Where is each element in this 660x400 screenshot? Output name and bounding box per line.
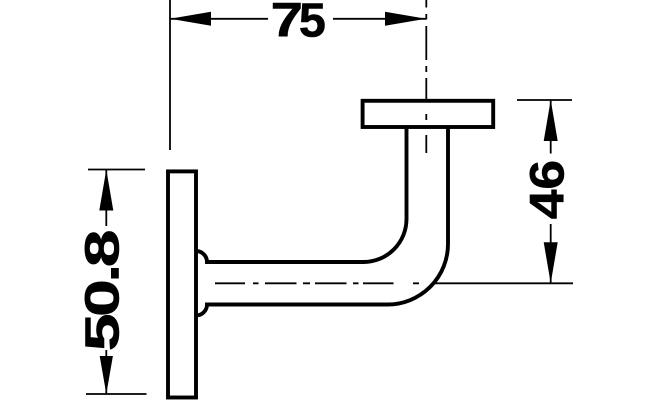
svg-text:46: 46 bbox=[520, 160, 574, 219]
vertical centerline bbox=[425, 0, 427, 153]
horizontal centerline bbox=[215, 282, 419, 284]
extension line 75 left bbox=[169, 0, 171, 150]
wall plate bbox=[168, 171, 196, 397]
saddle plate bbox=[363, 101, 494, 127]
dimension line 75 bbox=[170, 18, 426, 20]
dimension line 46 bbox=[550, 100, 552, 283]
tube inner wall bbox=[196, 127, 407, 262]
svg-text:5: 5 bbox=[299, 0, 326, 47]
extension line 50.8 top bbox=[88, 169, 145, 171]
arrow 46 bottom bbox=[544, 242, 558, 283]
arrow 50.8 top bbox=[99, 170, 113, 211]
arrow 46 top bbox=[544, 100, 558, 141]
tube outer wall bbox=[196, 127, 448, 316]
dimension line 50.8 bbox=[105, 170, 107, 395]
extension line 50.8 bottom bbox=[86, 393, 147, 395]
extension line 46 bottom bbox=[433, 282, 573, 284]
arrow 75 left bbox=[170, 12, 211, 26]
arrow 50.8 bottom bbox=[100, 356, 113, 394]
arrow 75 right bbox=[385, 12, 426, 26]
extension line 46 top bbox=[517, 99, 572, 101]
svg-text:50.8: 50.8 bbox=[75, 232, 129, 352]
